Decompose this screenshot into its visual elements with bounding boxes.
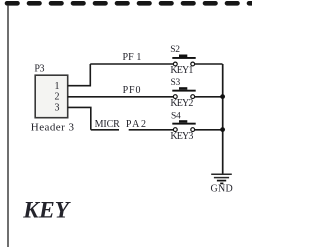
- svg-text:PF 1: PF 1: [123, 52, 142, 63]
- svg-text:P3: P3: [34, 64, 44, 75]
- svg-text:S4: S4: [171, 112, 181, 122]
- wire pin1 stub: [68, 64, 91, 86]
- svg-text:GND: GND: [211, 184, 234, 195]
- wire row3 segment B: [129, 129, 174, 131]
- svg-text:Header 3: Header 3: [31, 122, 75, 134]
- switch S2: [170, 45, 195, 76]
- svg-text:KEY: KEY: [22, 197, 71, 223]
- svg-text:3: 3: [55, 102, 60, 113]
- svg-text:KEY1: KEY1: [170, 65, 193, 76]
- wire row3 segment A: [91, 129, 119, 131]
- wire row1 left: [90, 63, 173, 65]
- ground: [211, 174, 234, 194]
- junction row2: [220, 94, 225, 99]
- wire row2 right: [195, 96, 223, 98]
- wire pin3 stub: [68, 107, 91, 129]
- switch S3: [170, 78, 195, 109]
- wire right rail: [222, 64, 224, 174]
- svg-text:KEY3: KEY3: [170, 131, 193, 142]
- connector P3: [31, 64, 75, 134]
- svg-text:S2: S2: [170, 45, 180, 55]
- svg-text:PF0: PF0: [123, 85, 142, 96]
- wire row3 right: [195, 129, 223, 131]
- svg-text:PA2: PA2: [126, 119, 148, 130]
- junction row3: [220, 127, 225, 132]
- svg-text:1: 1: [55, 81, 60, 92]
- svg-text:KEY2: KEY2: [170, 98, 193, 109]
- svg-text:S3: S3: [171, 78, 181, 88]
- svg-text:2: 2: [55, 92, 60, 103]
- svg-text:MICR: MICR: [95, 119, 121, 130]
- switch S4: [170, 112, 195, 142]
- wire row1 right: [195, 63, 223, 65]
- wire pin2 row2: [68, 96, 174, 98]
